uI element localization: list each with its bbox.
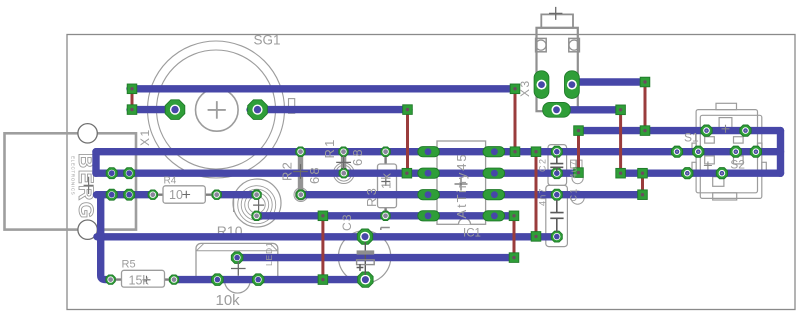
X3 pad bottom: [543, 102, 571, 117]
red link x536: [535, 154, 538, 235]
IC1 pad left 3: [418, 190, 440, 200]
IC1 pad left 2: [418, 168, 440, 178]
R10 bottom notch: [225, 281, 251, 293]
svg-text:ELECTRONICS: ELECTRONICS: [71, 156, 76, 195]
svg-text:LED1: LED1: [264, 242, 274, 266]
via square x323 y280: [318, 275, 328, 285]
svg-text:R5: R5: [122, 258, 136, 270]
IC1 pad right 3: [483, 190, 505, 200]
SG1 center cross: [208, 101, 226, 118]
R4 pad right: [212, 190, 221, 199]
via square x642 y173: [638, 168, 648, 178]
via square x132 y89: [127, 84, 137, 94]
resistor R3 body: [384, 155, 386, 212]
wire bus row y152: [96, 148, 781, 155]
svg-text:R4: R4: [164, 176, 177, 187]
R10 pad left: [212, 274, 224, 286]
SG1 pad right: [248, 100, 268, 120]
red link x514 lower: [513, 218, 516, 256]
via square x642 y195: [638, 190, 648, 200]
S1 cross a: [722, 125, 730, 133]
svg-text:AtTiny45: AtTiny45: [454, 152, 469, 218]
wire X3 to via row y110: [557, 106, 622, 113]
svg-text:R1: R1: [322, 137, 337, 158]
trimmer R10 body: [196, 243, 278, 281]
R1 pad top: [339, 147, 348, 156]
C3 minus band: [357, 250, 375, 254]
wire row y110 left: [130, 106, 180, 113]
wire X3 right pad y82: [572, 78, 645, 85]
wire row y216: [257, 212, 514, 219]
S1 pad a: [701, 125, 712, 136]
IC1 ATtiny45 body: [437, 141, 486, 224]
R4 pad left: [148, 190, 157, 199]
S1 pad b: [740, 125, 751, 136]
R3 pad top: [381, 147, 390, 156]
power jack X3 outline: [536, 14, 580, 111]
red link x322: [321, 218, 324, 278]
via square x645 y131: [640, 126, 650, 136]
R5 pad left: [106, 275, 115, 284]
X1 mounting circle top: [78, 124, 97, 143]
via square x620 y110: [616, 105, 626, 115]
X3 origin cross: [549, 7, 562, 20]
silk circle lower: [571, 191, 584, 204]
red link x620: [619, 113, 622, 172]
via square x132 y110: [127, 105, 137, 115]
C3 lead line: [364, 242, 366, 275]
svg-text:X1: X1: [138, 128, 152, 146]
IC1 pad left 1: [418, 147, 440, 157]
R2 pad top: [296, 147, 305, 156]
C1 pad bottom: [551, 231, 562, 242]
resistor R2 body bar: [298, 156, 303, 191]
S1 cross b: [704, 162, 712, 170]
wire row y195 seg1: [97, 191, 153, 198]
capacitor C1 outline: [546, 185, 568, 246]
R1 pad bottom: [339, 169, 348, 178]
svg-text:10: 10: [169, 188, 183, 202]
S2 pads bottom: [682, 168, 693, 179]
red via link x132: [131, 92, 134, 107]
S pads mid row: [671, 146, 682, 157]
LED1 package outline: [233, 179, 281, 227]
C2 pad top: [551, 146, 562, 157]
LED1 pad top: [252, 190, 261, 199]
svg-text:10k: 10k: [216, 292, 241, 309]
IC1 pad left 4: [418, 211, 440, 221]
red link x642: [641, 175, 644, 193]
R3 tick: [381, 228, 390, 231]
R2 pad bottom: [296, 190, 305, 199]
C1 pad top: [551, 189, 562, 200]
LED1 origin cross: [253, 200, 264, 211]
buzzer SG1 outline: [148, 41, 295, 178]
R5 pad right: [169, 275, 178, 284]
wire net1 row y89: [130, 85, 516, 92]
X1 pad 1: [106, 168, 117, 179]
board outline: [67, 35, 795, 310]
wire right vertical join: [777, 131, 784, 174]
silk circle upper: [572, 173, 583, 184]
resistor R5 body: [115, 278, 170, 280]
via square x323 y216: [318, 211, 328, 221]
capacitor C3 circle: [338, 231, 390, 283]
svg-text:4u7: 4u7: [568, 160, 578, 179]
C3 pad top: [357, 229, 372, 244]
red link x514 upper: [514, 92, 517, 150]
wire row y152 left turn down: [92, 152, 99, 174]
svg-text:C1: C1: [568, 187, 578, 202]
R2 origin cross: [293, 164, 308, 179]
via square x536 y237: [531, 232, 541, 242]
C3 lower band: [357, 260, 375, 265]
R4 value cross: [183, 191, 191, 199]
connector X1 outline: [5, 133, 137, 229]
wire row y110 mid gap right: [250, 106, 409, 113]
via square x578 y173: [574, 168, 584, 178]
svg-text:S1: S1: [684, 131, 699, 145]
R3 value cross: [381, 177, 390, 186]
via square x407 y173: [402, 168, 412, 178]
R10 pad right: [252, 274, 264, 286]
svg-text:R3: R3: [364, 186, 379, 207]
wire row y258: [237, 254, 514, 261]
via square x515 y89: [510, 84, 520, 94]
LED1 pad bottom: [252, 211, 261, 220]
via square x536 y152: [531, 147, 541, 157]
via square x408 y110: [403, 105, 413, 115]
via square x620 y173: [616, 168, 626, 178]
R10 pad wiper: [231, 252, 243, 264]
silk circles around R2 lower pad: [294, 188, 308, 202]
C1 cap symbol: [550, 200, 563, 232]
via square x514 y216: [509, 211, 519, 221]
wire row y195 seg2: [217, 191, 257, 198]
wire row y195 seg3: [301, 191, 643, 198]
svg-text:68: 68: [350, 147, 365, 166]
X1 pad 4: [124, 189, 135, 200]
R10 origin cross: [231, 261, 246, 275]
capacitor C2 outline: [548, 145, 567, 186]
red link x407: [406, 113, 409, 172]
svg-text:1k: 1k: [378, 171, 393, 189]
X3 pad right: [565, 71, 580, 99]
svg-text:4n7: 4n7: [538, 187, 548, 206]
wire row y280 left stub: [101, 195, 111, 280]
X1 pad 3: [106, 189, 117, 200]
wire row y173 left: [96, 169, 579, 176]
IC1 pad right 1: [483, 147, 505, 157]
resistor R4 body: [157, 193, 212, 195]
C2 cap symbol: [550, 156, 563, 172]
red link x645: [644, 86, 647, 129]
svg-text:C3: C3: [340, 213, 354, 231]
red link x578: [577, 133, 580, 172]
C3 pad bottom: [358, 272, 373, 287]
R5 value cross: [143, 276, 151, 284]
svg-text:C2: C2: [538, 157, 548, 172]
via square x514 y258: [509, 253, 519, 263]
switch S1 S2 outline: [692, 103, 766, 200]
SG1 pad left: [165, 100, 185, 120]
IC1 pad right 4: [483, 211, 505, 221]
svg-text:R2: R2: [280, 160, 295, 181]
X1 origin cross: [84, 177, 94, 194]
resistor R1 body bar: [341, 156, 346, 170]
wire row y131: [579, 127, 781, 134]
svg-text:IC1: IC1: [463, 228, 481, 240]
silk squares near C1: [571, 160, 576, 168]
R1 origin cross: [336, 155, 351, 170]
wire row y173 right: [621, 169, 781, 176]
svg-text:15k: 15k: [129, 274, 150, 288]
svg-text:S2: S2: [730, 158, 745, 172]
wire row y237: [97, 233, 557, 240]
via square x515 y152: [510, 147, 520, 157]
X3 pad left: [534, 71, 549, 99]
wire row y280 main: [174, 276, 366, 283]
IC1 pad right 2: [483, 168, 505, 178]
C2 pad bottom: [551, 168, 562, 179]
svg-text:SG1: SG1: [254, 33, 281, 48]
R3 pad bottom: [381, 211, 390, 220]
silk circles around R1 lower pad: [334, 163, 355, 184]
IC1 origin cross: [455, 178, 468, 191]
X1 mounting circle bottom: [78, 220, 97, 239]
via square x645 y82: [640, 77, 650, 87]
via square x578 y131: [574, 126, 584, 136]
X1 pad 2: [124, 168, 135, 179]
svg-text:68: 68: [307, 165, 322, 184]
C3 plus mark: [357, 264, 364, 271]
